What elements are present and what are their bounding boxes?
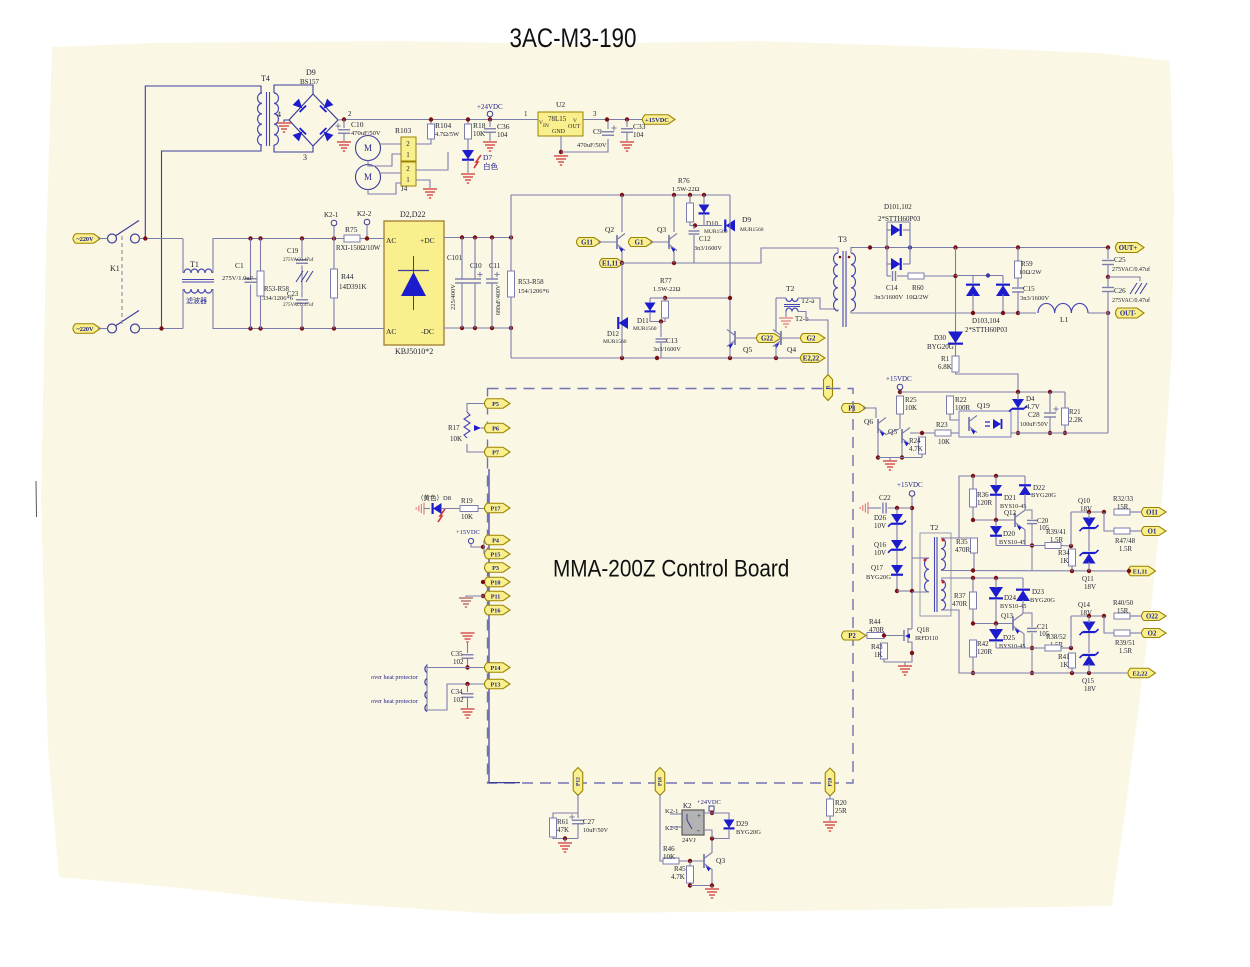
svg-text:~220V: ~220V [77, 236, 94, 243]
svg-text:Q13: Q13 [1001, 612, 1014, 620]
svg-text:25R: 25R [835, 807, 847, 815]
svg-text:R22: R22 [955, 396, 967, 404]
svg-text:R53-R58: R53-R58 [518, 278, 544, 286]
svg-text:D25: D25 [1003, 634, 1016, 642]
svg-text:G11: G11 [581, 239, 593, 246]
svg-text:（黄色）D8: （黄色）D8 [417, 493, 451, 502]
svg-text:K2-2: K2-2 [665, 825, 678, 832]
svg-text:D12: D12 [607, 330, 620, 338]
svg-text:MUR1560: MUR1560 [633, 326, 657, 332]
svg-text:R19: R19 [461, 497, 473, 505]
svg-text:+15VDC: +15VDC [886, 375, 912, 383]
svg-text:1.5R: 1.5R [1050, 537, 1063, 544]
svg-text:OUT-: OUT- [1120, 310, 1137, 317]
svg-text:C15: C15 [1023, 285, 1035, 293]
svg-text:4.7K: 4.7K [671, 873, 685, 881]
svg-text:10K: 10K [663, 853, 675, 861]
svg-text:102: 102 [453, 696, 464, 704]
svg-text:15R: 15R [1117, 608, 1129, 615]
svg-text:C25: C25 [1114, 256, 1126, 264]
svg-text:D101,102: D101,102 [884, 203, 912, 211]
svg-text:1.5R: 1.5R [1119, 648, 1132, 655]
svg-text:P15: P15 [491, 551, 501, 558]
svg-text:2: 2 [406, 140, 410, 148]
svg-text:P14: P14 [491, 665, 501, 672]
svg-text:R23: R23 [936, 421, 948, 429]
svg-text:O1: O1 [1148, 528, 1157, 535]
svg-text:+24VDC: +24VDC [697, 799, 721, 806]
svg-text:14D391K: 14D391K [339, 283, 367, 291]
svg-text:470uF/50V: 470uF/50V [577, 142, 607, 149]
svg-text:+15VDC: +15VDC [645, 117, 669, 124]
svg-text:3: 3 [593, 110, 597, 118]
svg-text:E2,22: E2,22 [1133, 670, 1148, 677]
svg-text:R39/41: R39/41 [1046, 529, 1066, 536]
svg-text:IRFD110: IRFD110 [915, 635, 938, 642]
svg-text:C9: C9 [593, 127, 602, 136]
svg-text:Q11: Q11 [1082, 575, 1094, 583]
svg-text:P6: P6 [492, 425, 499, 432]
svg-text:1K: 1K [1060, 661, 1069, 669]
svg-text:D2,D22: D2,D22 [400, 210, 426, 219]
svg-text:10K: 10K [905, 404, 917, 412]
svg-text:10Ω/2W: 10Ω/2W [1019, 269, 1042, 276]
svg-text:470R: 470R [952, 600, 968, 608]
svg-text:1K: 1K [1060, 557, 1069, 565]
svg-text:3n3/1600V: 3n3/1600V [694, 245, 722, 252]
svg-text:R60: R60 [912, 284, 924, 292]
svg-text:MUR1560: MUR1560 [740, 227, 764, 233]
svg-text:T3: T3 [838, 235, 847, 244]
svg-text:R75: R75 [345, 225, 358, 234]
svg-text:275VAC/0.47uf: 275VAC/0.47uf [1112, 266, 1150, 273]
svg-text:Q15: Q15 [1082, 677, 1095, 685]
svg-text:3: 3 [303, 153, 307, 162]
svg-text:MMA-200Z Control Board: MMA-200Z Control Board [553, 555, 789, 582]
svg-text:R103: R103 [395, 126, 412, 135]
svg-text:P16: P16 [491, 607, 501, 614]
svg-text:D22: D22 [1033, 484, 1046, 492]
svg-text:K2-1: K2-1 [324, 211, 339, 219]
svg-text:BYG20G: BYG20G [736, 829, 761, 836]
svg-text:1.5R: 1.5R [1119, 546, 1132, 553]
svg-text:P20: P20 [827, 777, 833, 786]
svg-text:3n3/1600V: 3n3/1600V [1020, 295, 1050, 302]
svg-text:D29: D29 [736, 820, 749, 828]
svg-text:D21: D21 [1004, 494, 1017, 502]
svg-text:BYS10-45: BYS10-45 [999, 643, 1025, 650]
svg-text:O11: O11 [1146, 509, 1158, 516]
svg-text:1: 1 [406, 151, 410, 159]
svg-text:C21: C21 [1037, 624, 1048, 631]
svg-text:R44: R44 [869, 618, 881, 626]
svg-text:Q2: Q2 [605, 225, 614, 234]
svg-text:120R: 120R [977, 499, 993, 507]
svg-text:D4: D4 [1026, 395, 1035, 403]
svg-text:E1,11: E1,11 [1133, 568, 1148, 575]
svg-text:3n3/1600V: 3n3/1600V [653, 346, 681, 353]
svg-text:R44: R44 [341, 272, 354, 281]
svg-text:78L15: 78L15 [548, 115, 567, 123]
svg-text:P18: P18 [657, 777, 663, 786]
svg-text:-DC: -DC [421, 327, 434, 336]
svg-text:C20: C20 [1037, 518, 1049, 525]
svg-text:R37: R37 [954, 592, 966, 600]
svg-text:4.7Ω/5W: 4.7Ω/5W [435, 131, 460, 138]
svg-text:47K: 47K [557, 826, 569, 834]
svg-text:275VAC/0.47uf: 275VAC/0.47uf [1112, 297, 1150, 304]
svg-text:120R: 120R [977, 648, 993, 656]
svg-text:-: - [697, 826, 700, 835]
svg-text:10V: 10V [874, 522, 886, 530]
svg-text:24VJ: 24VJ [682, 837, 696, 844]
svg-text:C27: C27 [583, 818, 595, 826]
svg-text:15R: 15R [1117, 504, 1129, 511]
svg-text:G22: G22 [761, 335, 774, 342]
svg-text:R76: R76 [678, 177, 690, 185]
svg-text:C10: C10 [470, 262, 482, 270]
svg-text:2*STTH60P03: 2*STTH60P03 [878, 215, 921, 223]
svg-text:Q19: Q19 [977, 401, 990, 410]
svg-text:3n3/1600V: 3n3/1600V [874, 294, 904, 301]
svg-text:10K: 10K [461, 513, 473, 521]
svg-text:4.7V: 4.7V [1026, 403, 1040, 411]
svg-text:OUT+: OUT+ [1119, 245, 1138, 252]
svg-text:O2: O2 [1148, 630, 1157, 637]
svg-text:275VAC0.47uf: 275VAC0.47uf [283, 258, 314, 263]
svg-text:AC: AC [386, 236, 396, 245]
svg-text:C12: C12 [699, 235, 711, 243]
svg-text:C22: C22 [879, 494, 891, 502]
svg-text:E2,22: E2,22 [803, 355, 820, 362]
svg-text:C26: C26 [1114, 287, 1126, 295]
svg-text:R21: R21 [1069, 408, 1081, 416]
svg-text:1K: 1K [874, 651, 883, 659]
svg-text:R46: R46 [663, 845, 675, 853]
svg-text:R47/48: R47/48 [1115, 538, 1136, 545]
svg-text:18V: 18V [1080, 505, 1092, 513]
svg-text:102: 102 [453, 658, 464, 666]
svg-text:P13: P13 [491, 681, 501, 688]
svg-text:10K: 10K [450, 435, 462, 443]
svg-text:IN: IN [543, 123, 549, 129]
svg-text:AC: AC [386, 327, 396, 336]
svg-text:Q3: Q3 [716, 856, 725, 865]
svg-text:275VAC0.47uf: 275VAC0.47uf [283, 303, 314, 308]
svg-text:J4: J4 [401, 185, 408, 193]
svg-text:BYG20G: BYG20G [1030, 597, 1055, 604]
svg-text:104: 104 [497, 131, 508, 139]
svg-text:T2: T2 [786, 284, 795, 293]
svg-text:R36: R36 [977, 491, 989, 499]
svg-text:P5: P5 [492, 401, 499, 408]
svg-text:18V: 18V [1084, 583, 1096, 591]
svg-text:154/1206*6: 154/1206*6 [518, 288, 550, 295]
svg-text:滤波器: 滤波器 [186, 296, 207, 305]
svg-text:R32/33: R32/33 [1113, 496, 1134, 503]
svg-text:C11: C11 [489, 262, 501, 270]
svg-text:BYG20G: BYG20G [1031, 492, 1056, 499]
svg-text:10uF/50V: 10uF/50V [583, 827, 609, 834]
svg-text:R53-R58: R53-R58 [264, 286, 290, 293]
svg-text:Q10: Q10 [1078, 497, 1091, 505]
svg-text:G2: G2 [807, 335, 816, 342]
svg-text:R45: R45 [674, 865, 686, 873]
svg-text:MUR1560: MUR1560 [603, 339, 627, 345]
svg-text:D20: D20 [1003, 530, 1016, 538]
svg-text:R35: R35 [956, 538, 968, 546]
svg-text:K1: K1 [110, 264, 120, 273]
svg-text:over heat protector: over heat protector [371, 674, 418, 681]
svg-text:P7: P7 [492, 449, 499, 456]
svg-text:Q17: Q17 [871, 564, 884, 572]
svg-text:P17: P17 [491, 505, 501, 512]
svg-text:C36: C36 [497, 122, 510, 131]
svg-text:D26: D26 [874, 514, 887, 522]
svg-text:R61: R61 [557, 818, 569, 826]
svg-text:~220V: ~220V [77, 326, 94, 333]
svg-text:P11: P11 [491, 593, 501, 600]
svg-text:4: 4 [277, 110, 281, 119]
svg-text:D10: D10 [706, 220, 719, 228]
svg-text:E1,11: E1,11 [602, 260, 619, 267]
svg-text:10Ω/2W: 10Ω/2W [906, 294, 929, 301]
svg-text:R77: R77 [660, 277, 672, 285]
svg-text:BS157: BS157 [300, 78, 320, 86]
svg-text:2: 2 [348, 110, 352, 118]
svg-text:C14: C14 [886, 284, 898, 292]
svg-text:D7: D7 [483, 153, 492, 162]
svg-text:4.7K: 4.7K [909, 445, 923, 453]
svg-text:275V/1.0uF: 275V/1.0uF [222, 275, 254, 282]
svg-text:+24VDC: +24VDC [477, 103, 503, 111]
svg-text:BYG20G: BYG20G [927, 343, 954, 351]
svg-text:C35: C35 [451, 650, 463, 658]
svg-text:R43: R43 [871, 643, 883, 651]
svg-text:Q5: Q5 [743, 345, 752, 354]
svg-text:680uF/400V: 680uF/400V [496, 284, 502, 315]
svg-text:R24: R24 [909, 437, 921, 445]
svg-text:18V: 18V [1080, 609, 1092, 617]
svg-text:+15VDC: +15VDC [897, 481, 923, 489]
svg-text:K2-2: K2-2 [357, 210, 372, 218]
svg-text:D24: D24 [1004, 594, 1017, 602]
svg-text:R59: R59 [1021, 260, 1033, 268]
svg-text:R42: R42 [977, 640, 989, 648]
svg-text:10V: 10V [874, 549, 886, 557]
svg-text:100uF/50V: 100uF/50V [1020, 421, 1049, 428]
svg-text:M: M [364, 143, 372, 153]
svg-text:2: 2 [406, 165, 410, 173]
svg-text:3AC-M3-190: 3AC-M3-190 [510, 24, 637, 53]
svg-text:C34: C34 [451, 688, 463, 696]
svg-text:RXI-150Ω/10W: RXI-150Ω/10W [336, 245, 381, 252]
svg-text:O22: O22 [1146, 613, 1159, 620]
svg-text:OUT: OUT [568, 124, 581, 130]
svg-text:Q3: Q3 [657, 225, 666, 234]
svg-text:R20: R20 [835, 799, 847, 807]
svg-text:Q4: Q4 [787, 345, 796, 354]
svg-text:470R: 470R [869, 626, 885, 634]
svg-text:U2: U2 [556, 100, 565, 109]
svg-text:2*STTH60P03: 2*STTH60P03 [965, 326, 1008, 334]
svg-text:BYG20G: BYG20G [866, 574, 891, 581]
svg-text:10K: 10K [938, 438, 950, 446]
svg-text:over heat protector: over heat protector [371, 698, 418, 705]
svg-text:R18: R18 [473, 121, 486, 130]
svg-text:Q16: Q16 [874, 541, 887, 549]
svg-text:R25: R25 [905, 396, 917, 404]
svg-text:C13: C13 [666, 337, 678, 345]
svg-text:2.2K: 2.2K [1069, 416, 1083, 424]
svg-text:R1: R1 [941, 355, 950, 363]
svg-text:10K: 10K [473, 130, 485, 138]
svg-text:KBJ5010*2: KBJ5010*2 [395, 347, 433, 356]
svg-text:白色: 白色 [483, 161, 498, 171]
svg-text:Q12: Q12 [1004, 509, 1017, 517]
svg-text:K2: K2 [683, 802, 692, 810]
svg-text:C1: C1 [235, 261, 244, 270]
svg-text:P12: P12 [575, 777, 581, 786]
svg-text:G1: G1 [635, 239, 644, 246]
svg-text:1.5W-22Ω: 1.5W-22Ω [653, 286, 681, 293]
svg-text:R38/52: R38/52 [1046, 634, 1067, 641]
svg-text:P2: P2 [848, 633, 856, 640]
svg-text:D9: D9 [742, 215, 751, 224]
svg-text:L1: L1 [1060, 315, 1069, 324]
svg-text:D11: D11 [637, 317, 649, 325]
svg-text:R40/50: R40/50 [1113, 600, 1134, 607]
svg-text:Q6: Q6 [864, 417, 873, 426]
svg-text:T2: T2 [930, 523, 939, 532]
svg-text:T2-b: T2-b [795, 315, 809, 323]
svg-text:P1: P1 [848, 405, 856, 412]
svg-text:P4: P4 [492, 537, 499, 544]
svg-text:C101: C101 [447, 254, 463, 262]
svg-text:D23: D23 [1032, 588, 1045, 596]
svg-text:225/400V: 225/400V [450, 284, 457, 310]
svg-text:GND: GND [552, 129, 566, 135]
svg-text:1: 1 [406, 176, 410, 184]
svg-text:C19: C19 [287, 248, 299, 255]
svg-text:6.8K: 6.8K [938, 363, 952, 371]
svg-text:T1: T1 [190, 260, 199, 269]
svg-text:R41: R41 [1058, 653, 1070, 661]
svg-text:+15VDC: +15VDC [456, 529, 480, 536]
svg-text:18V: 18V [1084, 685, 1096, 693]
svg-text:+DC: +DC [420, 236, 435, 245]
svg-text:C10: C10 [351, 120, 364, 129]
svg-text:M: M [364, 172, 372, 182]
svg-text:T4: T4 [261, 74, 270, 83]
svg-text:Q14: Q14 [1078, 601, 1091, 609]
svg-text:D103,104: D103,104 [972, 317, 1000, 325]
svg-text:P3: P3 [492, 565, 499, 572]
svg-text:1: 1 [524, 110, 528, 118]
svg-text:D30: D30 [934, 334, 947, 342]
svg-text:R104: R104 [435, 121, 452, 130]
svg-text:C28: C28 [1028, 411, 1040, 419]
svg-text:R34: R34 [1058, 549, 1070, 557]
svg-text:R17: R17 [448, 424, 460, 432]
svg-text:470R: 470R [955, 546, 971, 554]
svg-text:+: + [697, 812, 701, 820]
svg-text:Q18: Q18 [917, 626, 930, 634]
svg-text:P10: P10 [491, 579, 501, 586]
svg-text:D9: D9 [306, 68, 316, 77]
svg-text:104: 104 [633, 131, 644, 139]
svg-text:R39/51: R39/51 [1115, 640, 1135, 647]
svg-text:1.5W-22Ω: 1.5W-22Ω [672, 186, 700, 193]
svg-text:C23: C23 [287, 291, 299, 298]
